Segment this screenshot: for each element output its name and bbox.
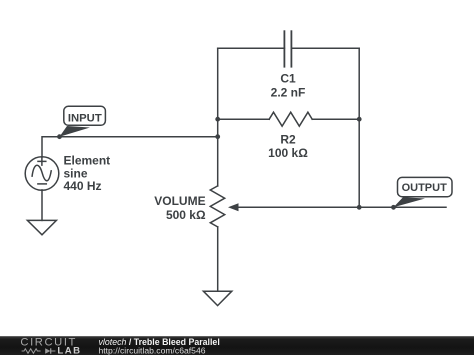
ground (bottom) [203, 291, 231, 305]
svg-text:http://circuitlab.com/c6af546: http://circuitlab.com/c6af546 [99, 345, 206, 355]
node OUTPUT flag [391, 177, 452, 209]
wire R2 left lead [218, 118, 270, 120]
potentiometer VOLUME [210, 186, 224, 227]
svg-text:R2: R2 [280, 133, 296, 147]
label Element sine 440 Hz [64, 153, 111, 193]
wire C1 to right rail [291, 47, 359, 49]
svg-text:VOLUME: VOLUME [154, 194, 205, 208]
wire pot to ground [217, 227, 219, 291]
node INPUT flag [57, 106, 105, 139]
svg-text:2.2 nF: 2.2 nF [271, 86, 306, 100]
logo resistor-diode icon [22, 348, 56, 353]
wire top to C1 [218, 47, 285, 49]
wire R2 right lead [312, 118, 359, 120]
svg-text:INPUT: INPUT [68, 112, 102, 124]
svg-text:500 kΩ: 500 kΩ [166, 208, 206, 222]
footer bar [0, 336, 474, 355]
junction left rail / R2 [215, 117, 220, 122]
svg-text:C1: C1 [280, 72, 296, 86]
wire left rail [217, 48, 219, 186]
wire INPUT horizontal [42, 137, 218, 157]
svg-text:sine: sine [64, 166, 88, 180]
junction right rail / R2 [357, 117, 362, 122]
resistor R2 [269, 112, 312, 126]
svg-text:OUTPUT: OUTPUT [402, 182, 448, 194]
svg-text:440 Hz: 440 Hz [64, 179, 102, 193]
svg-text:Element: Element [64, 153, 111, 167]
junction left rail / INPUT [215, 134, 220, 139]
ground (left) [27, 220, 56, 234]
capacitor C1 [284, 31, 291, 66]
wire source to ground [41, 190, 43, 221]
voltage source V1 [25, 157, 59, 191]
svg-text:LAB: LAB [57, 345, 81, 355]
wire right rail [358, 48, 360, 207]
junction right rail / wiper [357, 205, 362, 210]
wiper arrow [228, 203, 446, 211]
svg-text:100 kΩ: 100 kΩ [268, 146, 308, 160]
